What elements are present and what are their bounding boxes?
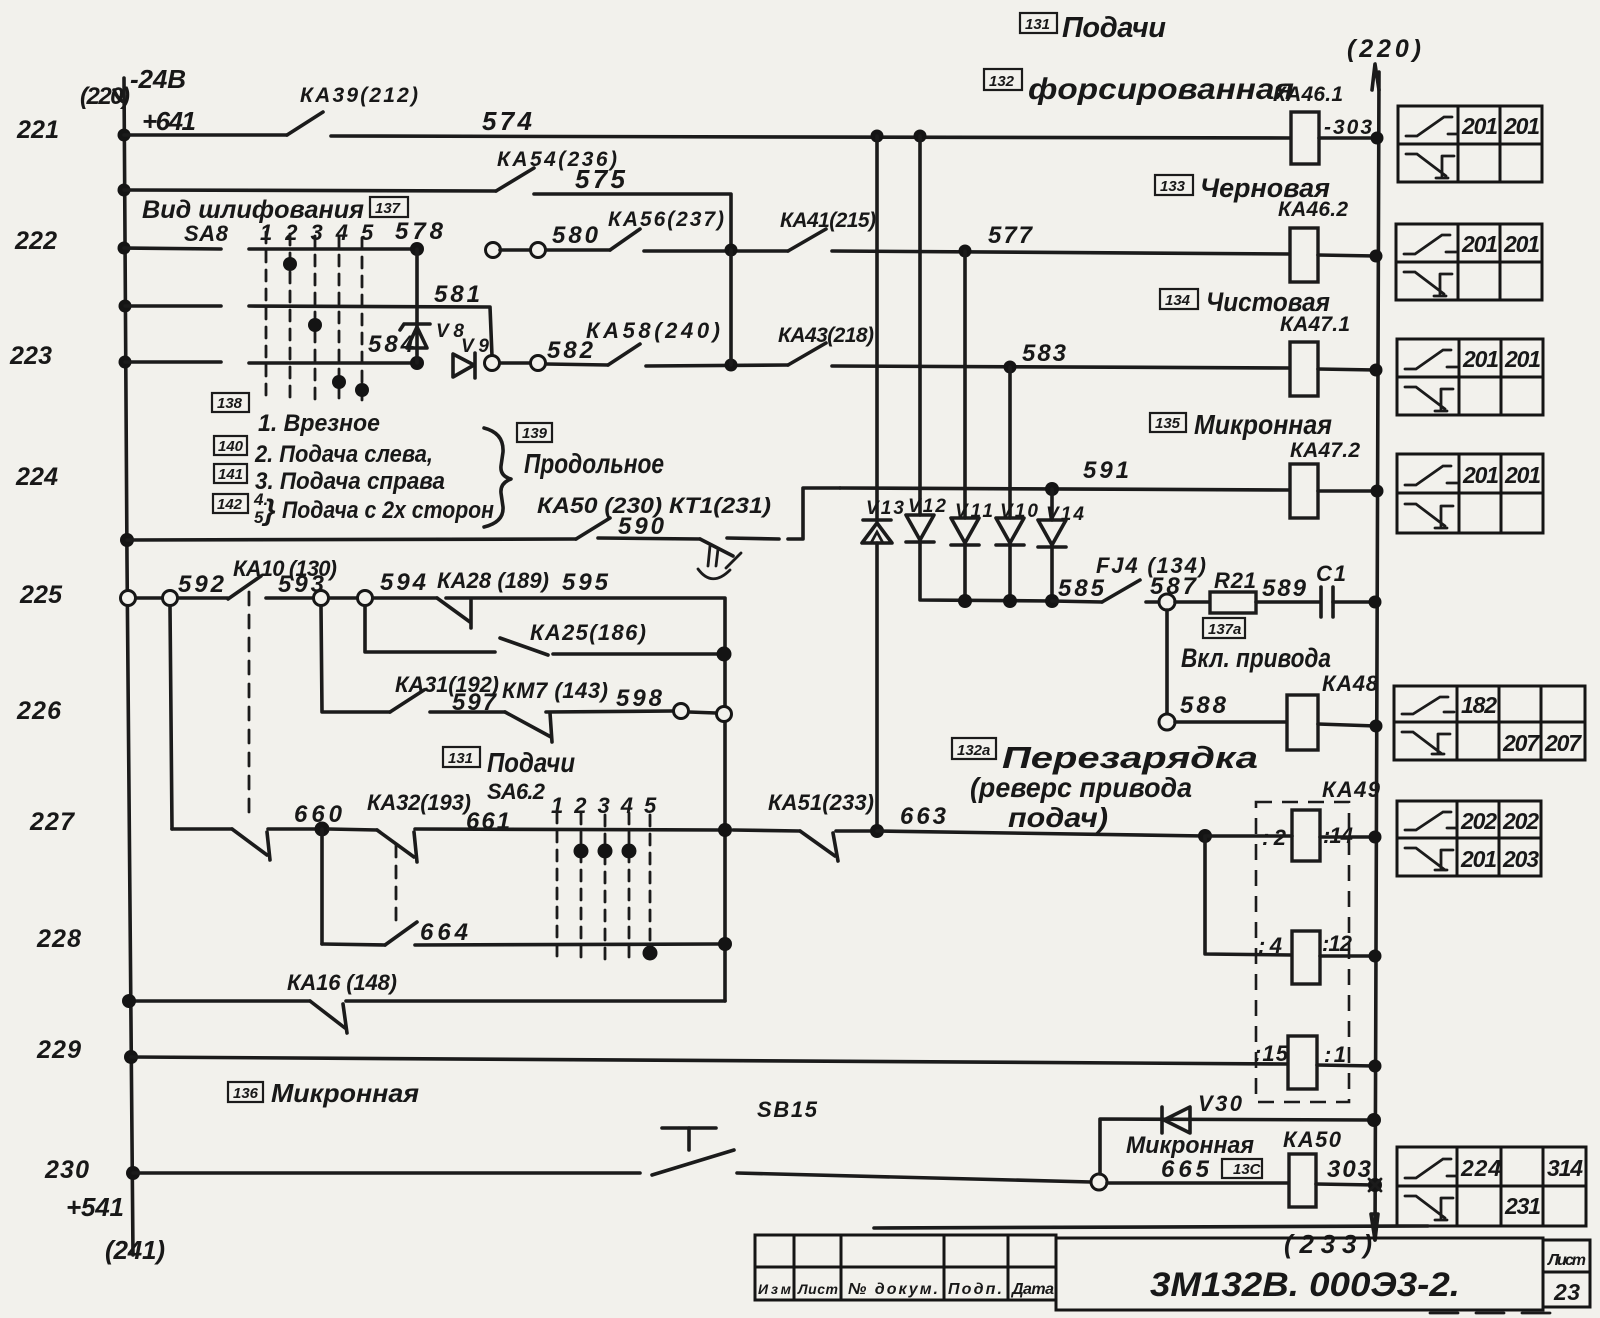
contact KA39(212) [287,112,323,135]
junction 589/right bus [1369,596,1382,609]
svg-text:138: 138 [217,395,243,412]
label [139] [517,423,552,442]
wire 591 [840,488,1290,490]
wire 230 [133,1171,640,1175]
svg-text:201: 201 [1461,231,1498,257]
svg-text::15: :15 [1254,1041,1289,1066]
wire 593 drop [321,606,390,712]
contact KA16(148) NC [310,1001,347,1033]
svg-text:135: 135 [1155,415,1181,432]
SA6.2 closed dot pos3 [598,844,613,859]
svg-text:226: 226 [16,697,62,725]
capacitor C1 [1321,587,1333,617]
junction 575v/223 [725,359,738,372]
svg-text:587: 587 [1150,573,1198,600]
junction KA49 branch [1198,829,1212,843]
svg-text:V13: V13 [866,498,904,519]
svg-text:207: 207 [1544,730,1582,756]
terminal circle 588 [1159,714,1175,730]
diode V13 diac [862,520,892,543]
junction 228/vert725 [718,937,732,951]
svg-text:574: 574 [482,106,533,136]
wire 589 [1256,600,1319,604]
wire coil KA50 to bus [1316,1184,1375,1185]
wire 663 to KA49 [877,831,1205,836]
junction bus/KA16 [122,994,136,1008]
svg-text:222: 222 [14,227,57,255]
SA8 closed position dot row223 pos4 [332,375,346,389]
wire 587-588 vertical [1165,610,1169,715]
svg-text:592: 592 [178,571,225,598]
svg-text:225: 225 [19,581,63,609]
terminal circle 598b on 595 vertical [717,707,732,722]
mech link KA32 dashed [395,845,398,920]
junction 591/right bus [1371,485,1384,498]
title block [755,1226,1590,1313]
contact KA56(237) [610,229,640,250]
svg-text:2. Подача слева,: 2. Подача слева, [254,441,433,468]
wire 575 vertical lower [729,250,733,365]
svg-text:Лист: Лист [797,1281,838,1297]
label [132a] Перезарядка (реверс привода подач) [952,738,1258,833]
svg-text:594: 594 [380,569,426,596]
svg-text:227: 227 [29,808,75,836]
svg-text:(241): (241) [105,1235,165,1265]
diode V30 [1162,1107,1190,1133]
junction 660 [315,822,330,837]
terminal circle 593 [314,591,329,606]
wire 581 [249,306,492,356]
svg-text:КА41(215): КА41(215) [780,209,876,232]
contact KA43(218) [788,343,826,365]
contact KA54(236) [496,168,534,191]
svg-text:660: 660 [294,801,343,828]
wire coil KA49.2 to bus [1320,954,1375,958]
wire 593 [266,596,314,600]
coil KA49.1 [1292,810,1320,861]
contact KT1(231) time delay [698,539,741,579]
wire KA49 vertical branch [1205,836,1292,955]
svg-text:314: 314 [1547,1155,1583,1181]
junction 577/vert965 [959,245,972,258]
left bus (220)->(241) [114,78,133,1255]
svg-text:Подачи: Подачи [1062,12,1166,44]
label [131] Подачи [1020,12,1166,44]
svg-text:13С: 13С [1233,1161,1262,1178]
svg-text:V11: V11 [955,501,993,522]
wire to R21 [1175,600,1210,604]
svg-text:201: 201 [1503,231,1540,257]
terminal circle 598a [674,704,689,719]
svg-text:Лист: Лист [1547,1252,1586,1269]
wire KA16 row [131,999,310,1003]
svg-text:202: 202 [1502,808,1539,834]
wire 223 SA8 to V8 [249,361,417,365]
label [141] 3. Подача справа [214,464,445,495]
svg-text:V14: V14 [1046,504,1084,525]
svg-text:137: 137 [375,200,401,217]
wire 588 [1175,720,1287,724]
svg-text:580: 580 [552,222,599,249]
svg-text:Перезарядка: Перезарядка [1002,740,1258,775]
mech link KA10 dashed [248,592,251,818]
svg-text:№ докум.: № докум. [848,1281,938,1298]
svg-text:КА16 (148): КА16 (148) [287,970,397,995]
wire 660 drop to 228 [320,829,324,944]
junction 1010/600 [1003,594,1017,608]
svg-text:303: 303 [1327,1156,1372,1183]
SA8 closed position dot row223 pos5 [355,383,369,397]
junction 574/vert920 [914,130,927,143]
junction bus/221 [118,129,131,142]
wire 222 SA8 to 578 [249,247,417,251]
wire 663 into coil KA49.1 [1205,834,1292,838]
svg-text:С1: С1 [1316,561,1346,586]
terminal circle 587 [1159,594,1175,610]
junction 227/right bus [1369,831,1382,844]
wire 229 [131,1057,1288,1064]
svg-text:664: 664 [420,919,468,946]
wire 228 start [322,944,385,945]
svg-text:3М132В. 000Э3-2.: 3М132В. 000Э3-2. [1150,1266,1460,1304]
svg-text::12: :12 [1322,931,1353,956]
contact table KA48 [1394,686,1585,760]
svg-text:SВ15: SВ15 [757,1097,818,1122]
wire 580 [546,248,610,252]
wire 221 left [124,133,287,137]
junction 591/V14 [1045,482,1059,496]
wire 592 drop to 227 [170,606,172,829]
wire coil to bus 222 [1318,255,1376,256]
svg-text:221: 221 [16,116,59,144]
terminal circle 225 on bus [121,591,136,606]
junction 1052/600 [1045,594,1059,608]
vertical net 1052 / V14 [1050,489,1054,601]
wire 222 to SA8 [124,248,221,249]
junction 221/right bus [1371,132,1384,145]
junction KA49.3/right bus [1369,1060,1382,1073]
coil KA49.2 [1292,931,1320,984]
terminal circle 582b [531,356,546,371]
wire KA16 to vert725 [346,999,725,1003]
wire 587 [1146,600,1160,604]
wire 661 [415,829,719,830]
svg-text:201: 201 [1462,462,1499,488]
svg-text:V10: V10 [1000,501,1038,522]
junction 584 [410,356,424,370]
SA8 closed position dot row222 pos2 [283,257,297,271]
terminal circle 594 [358,591,373,606]
junction 578 [410,242,424,256]
wire [689,712,716,713]
wire 583 [832,366,1290,368]
svg-text:224: 224 [15,463,58,491]
svg-text:}: } [261,494,276,527]
contact row227 link1 NC [232,829,270,860]
contact KA32(193) NC [377,830,417,862]
label [142] 4,5 Подача с 2х сторон [213,490,494,527]
contact 664 [385,922,417,945]
svg-text:Черновая: Черновая [1200,173,1330,203]
junction bus/222 [118,242,131,255]
wire 595 [446,598,725,1001]
junction 965/600 [958,594,972,608]
svg-text:SА6.2: SА6.2 [487,779,546,804]
vertical net 1010 [1008,367,1012,601]
svg-text:590: 590 [618,513,665,540]
label Микронная 665 [13c] [1126,1132,1262,1183]
svg-text:Подп.: Подп. [948,1281,1002,1298]
svg-text:5: 5 [254,508,264,527]
terminal circle 222a [486,243,501,258]
switch SA8 position line 3 [314,236,317,400]
svg-text:(220): (220) [80,83,130,110]
svg-text:229: 229 [36,1036,81,1064]
svg-text::4: :4 [1258,933,1282,958]
svg-text:подач): подач) [1008,802,1108,833]
vertical net 965 [963,251,967,601]
svg-text:231: 231 [1504,1193,1541,1219]
contact KA31(192) [390,690,424,712]
coil KA47.2 [1290,464,1318,518]
SA8 closed position dot 581 pos3 [308,318,322,332]
svg-text:133: 133 [1160,178,1186,195]
svg-text:140: 140 [218,438,244,455]
wire coil to bus 223 [1318,369,1376,370]
contact FJ4(134) [1102,580,1140,602]
svg-text:207: 207 [1502,730,1540,756]
svg-text:137а: 137а [1208,621,1241,638]
svg-text:КА50: КА50 [1283,1127,1342,1152]
svg-text:Микронная: Микронная [271,1078,419,1108]
junction 663/vert877 [870,824,884,838]
terminal circle 592 [163,591,178,606]
right bus (220)->(233) [1371,64,1379,1240]
svg-text:КА48: КА48 [1322,671,1379,696]
terminal circle 665 [1091,1174,1107,1190]
wire 594 drop [365,606,495,652]
switch SA6.2 position line 2 [580,813,583,960]
contact table KA49 [1397,801,1541,876]
coil KA49.3 [1288,1036,1317,1089]
junction bus/575 [118,184,131,197]
svg-text:583: 583 [1022,340,1067,367]
wire coil KA49.1 to bus [1320,835,1375,839]
label [132] форсированная [984,69,1294,106]
button SB15 [652,1128,734,1175]
wire 227 start [172,827,232,831]
svg-text:595: 595 [562,569,609,596]
diode V12 [906,515,934,542]
diode V9 [453,353,475,378]
label [131] Подачи (middle) [443,747,575,778]
svg-text:форсированная: форсированная [1028,73,1294,106]
svg-text:131: 131 [448,750,473,767]
junction 583/vert1010 [1004,361,1017,374]
junction bus/223 [119,356,132,369]
junction 575/222 [725,244,738,257]
svg-text:142: 142 [217,496,243,513]
switch SA8 position line 1 [265,232,268,402]
junction 227/vert725 [718,823,732,837]
svg-text:585: 585 [1058,575,1105,602]
coil KA46.1 [1291,112,1319,164]
wire 664 [415,944,718,945]
svg-text:593: 593 [278,571,325,598]
wire -303 [1319,136,1376,140]
wire 575 [534,194,731,250]
brace } big [484,428,511,527]
svg-text:12345: 12345 [260,220,386,245]
wire 660-KA32 [329,829,377,830]
svg-text:R21: R21 [1214,568,1256,593]
vertical net 920 [920,136,1052,601]
svg-text:Изм: Изм [758,1281,792,1297]
svg-text:КА49: КА49 [1322,777,1381,802]
svg-text:Микронная: Микронная [1194,409,1332,440]
svg-text:V30: V30 [1198,1091,1243,1116]
svg-text:Подача с 2х сторон: Подача с 2х сторон [282,497,494,524]
contact table KA46.2 [1396,224,1542,300]
switch SA6.2 position line 1 [556,812,559,962]
label [133] Черновая [1155,173,1330,203]
terminal circle 582a [485,356,500,371]
label [138] [212,393,249,412]
wire to KA10 [178,596,228,600]
svg-text:201: 201 [1461,113,1498,139]
junction bus/224 [120,533,134,547]
svg-text:КА28 (189): КА28 (189) [437,568,549,593]
svg-text:202: 202 [1460,808,1497,834]
junction KA49.2/right bus [1369,950,1382,963]
diode V11 [951,518,979,545]
junction V30/right bus [1367,1113,1381,1127]
wire V30 branch vertical [1100,1119,1374,1174]
svg-text:182: 182 [1461,692,1497,718]
svg-text:131: 131 [1025,16,1050,33]
contact table KA50 [1397,1147,1586,1226]
label [134] Чистовая [1160,287,1330,317]
svg-text:-24В: -24В [130,64,186,94]
svg-text:3. Подача справа: 3. Подача справа [255,468,445,495]
switch SA6.2 position line 5 [649,815,652,948]
contact table KA47.1 [1397,339,1543,415]
svg-text:КА47.2: КА47.2 [1290,439,1360,462]
junction bus/581 [119,300,132,313]
svg-text:141: 141 [218,466,243,483]
wire to 731 [646,365,788,366]
label [137a] Вкл. привода [1181,618,1331,673]
contact KM7(143) NC [505,712,552,742]
svg-text:224: 224 [1460,1155,1501,1181]
resistor R21 [1210,592,1256,613]
wire 663 [836,829,870,833]
coil KA48 [1287,695,1318,750]
svg-text:203: 203 [1502,846,1539,872]
SA6.2 closed dot pos2 [574,844,589,859]
vertical net V13 (877) [875,136,879,831]
svg-text:КА43(218): КА43(218) [778,324,874,347]
svg-text:+641: +641 [142,106,196,136]
diode V14 [1038,520,1066,547]
wire 578-584 vertical [415,249,419,363]
label [140] 2. Подача слева [214,436,433,468]
wire to 731 [644,249,788,253]
wire 224 to 591 jog [727,488,840,539]
svg-text:132а: 132а [957,742,990,759]
junction 223/right bus [1370,364,1383,377]
wire C1 to bus [1333,600,1375,604]
svg-text:Продольное: Продольное [524,448,664,479]
svg-text:598: 598 [616,685,663,712]
contact KA28(189) NC [437,598,471,628]
wire 577 [832,251,1290,254]
svg-text:201: 201 [1460,846,1497,872]
svg-text:139: 139 [522,425,548,442]
svg-text:КА32(193): КА32(193) [367,790,471,815]
svg-text:134: 134 [1165,292,1191,309]
label [136] Микронная (bottom left) [228,1078,419,1108]
switch SA8 position line 2 [289,234,292,398]
contact KA10(130) [228,576,261,599]
wire 593-594 [329,596,358,600]
wire 665 to coil [1107,1181,1289,1185]
svg-text:588: 588 [1180,692,1227,719]
wire coil KA49.3 to bus [1317,1065,1375,1066]
wire 597 [430,710,505,714]
svg-text:КМ7 (143): КМ7 (143) [502,678,608,703]
wire 592 [136,596,162,600]
contact KA58(240) [608,344,640,365]
SA6.2 closed dot pos5 row228 [643,946,658,961]
switch SA8 position line 5 [361,238,364,400]
svg-text:581: 581 [434,281,480,308]
svg-text:201: 201 [1503,113,1540,139]
wire 598 [546,711,673,712]
svg-text:589: 589 [1262,575,1307,602]
svg-text:665: 665 [1161,1156,1210,1183]
wire 574 [331,136,1291,138]
wire 224 [127,539,576,540]
svg-text:201: 201 [1504,462,1541,488]
svg-text:+541: +541 [66,1192,124,1222]
svg-text:663: 663 [900,803,947,830]
svg-text:1. Врезное: 1. Врезное [258,410,380,437]
contact KA50(230) [576,518,610,539]
wire [500,361,531,365]
wire 575 stem [124,190,496,191]
svg-text:577: 577 [988,222,1034,249]
switch SA6.2 position line 3 [604,815,607,960]
diode V8 [400,324,430,348]
svg-text:575: 575 [575,164,626,194]
SA6.2 closed dot pos4 [622,844,637,859]
junction bus/230 [126,1166,140,1180]
junction 303/right bus [1368,1178,1382,1192]
label [135] Микронная [1150,409,1332,440]
svg-text:578: 578 [395,218,444,245]
wire 227 to KA51 [733,830,800,831]
contact table KA47.2 [1397,454,1543,533]
svg-text:Дата: Дата [1010,1281,1054,1298]
wire 222 [500,248,531,252]
wire to 660 [268,827,315,831]
wire coil to bus 591 [1318,489,1376,493]
svg-text:201: 201 [1504,346,1541,372]
contact KA41(215) [788,229,826,251]
contact KA25(186) [500,638,717,655]
svg-text:136: 136 [233,1085,259,1102]
